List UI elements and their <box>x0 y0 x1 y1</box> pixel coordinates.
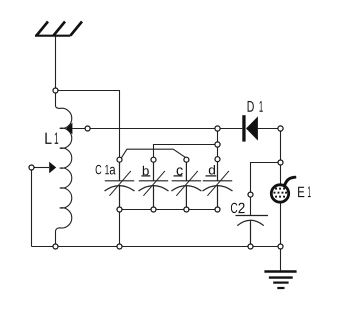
C1d top terminal <box>215 157 220 162</box>
label C1a <box>96 165 116 175</box>
ground <box>264 272 296 289</box>
capacitor C1b <box>139 162 169 207</box>
tap 1 wire <box>72 128 215 130</box>
C2 top terminal <box>248 192 253 197</box>
node tap line / diode <box>215 126 220 131</box>
C1a bottom terminal <box>117 207 122 212</box>
ground wire <box>280 249 282 270</box>
diode D1 <box>242 115 245 141</box>
C2/E1 junction node <box>278 160 283 165</box>
node bracket B junction <box>215 142 220 147</box>
label E1 <box>298 186 311 197</box>
L1 bottom node <box>53 244 58 249</box>
C1b bottom terminal <box>151 207 156 212</box>
vertical from node to C1d <box>217 131 219 157</box>
wire antenna to node A <box>55 37 57 89</box>
label C2 <box>231 203 245 213</box>
label c <box>177 167 183 175</box>
C1 bank bottom node <box>117 244 122 249</box>
E1 branch wire <box>280 131 282 184</box>
left branch wire down <box>31 170 33 247</box>
tap1 terminal circle <box>85 126 90 131</box>
C1b top terminal <box>151 157 156 162</box>
label L1 <box>45 133 58 144</box>
capacitor C1a <box>105 162 135 207</box>
C2 branch wire <box>251 163 279 216</box>
ground node <box>278 244 283 249</box>
label d <box>209 165 215 175</box>
capacitor C2 <box>236 216 269 245</box>
wire C1a bottom to bottom node <box>119 212 121 244</box>
label D1 <box>248 101 263 112</box>
bracket A (C1a top to C1c top) <box>121 149 186 158</box>
label b <box>143 166 149 176</box>
label c underline <box>174 175 183 177</box>
tap1 arrow (points left) <box>66 123 72 135</box>
bottom wire <box>32 246 281 248</box>
node A (antenna/coil junction) <box>53 88 58 93</box>
label d underline <box>206 175 217 177</box>
C1a top terminal <box>117 157 122 162</box>
diode D1 wires <box>220 128 278 130</box>
tap2 terminal circle <box>29 165 34 170</box>
C1d bottom terminal <box>215 207 220 212</box>
wire top line from node A to corner <box>58 91 120 158</box>
capacitor C1d <box>203 162 233 208</box>
C1 bottom rail <box>120 209 218 211</box>
inductor L1 <box>56 93 72 244</box>
earphone E1 <box>271 185 288 202</box>
C2 bottom node <box>248 244 253 249</box>
antenna <box>35 22 82 36</box>
C1c top terminal <box>184 157 189 162</box>
C1c bottom terminal <box>184 207 189 212</box>
label b underline <box>141 175 150 177</box>
tap 2 wire <box>34 167 49 169</box>
tap2 arrow (points right) <box>49 162 56 174</box>
diode output node <box>278 126 283 131</box>
capacitor C1c <box>171 162 201 207</box>
earphone E1 cord <box>285 177 295 184</box>
bracket B (C1b riser to node) <box>154 145 216 158</box>
